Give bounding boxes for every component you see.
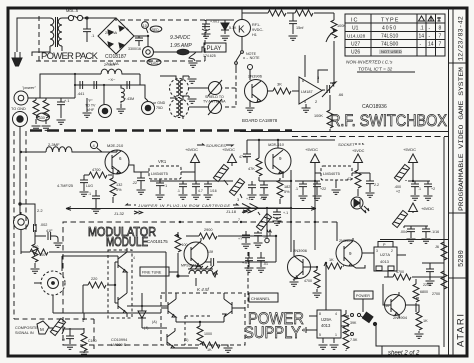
- wire branch: [20, 204, 35, 222]
- svg-text:or GND: or GND: [153, 101, 166, 105]
- svg-text:R.F. SWITCHBOX: R.F. SWITCHBOX: [330, 111, 447, 130]
- box POWER switch label: [354, 291, 373, 312]
- svg-text:.1: .1: [88, 192, 91, 196]
- wire splitter: [115, 262, 127, 303]
- op-amp U3: [234, 197, 292, 213]
- wire power rail: [28, 74, 140, 98]
- resistor R16: [80, 328, 97, 356]
- box CHANNEL: [249, 293, 278, 302]
- svg-text:1K: 1K: [207, 348, 212, 352]
- connector K: [234, 13, 251, 50]
- svg-text:7: 7: [439, 42, 442, 48]
- strip cell divider under system title: [449, 212, 467, 214]
- svg-text:4.7: 4.7: [198, 189, 203, 193]
- svg-text:POWER PACK: POWER PACK: [41, 51, 99, 62]
- svg-text:RED: RED: [152, 28, 160, 32]
- svg-text:PLUG: PLUG: [149, 61, 159, 65]
- power triangle +5VDC right: [409, 154, 418, 166]
- resistor R13 47n: [347, 169, 361, 196]
- console dashed boundary left inner: [25, 131, 27, 232]
- capacitor C20 +1: [246, 181, 257, 201]
- capacitor C7: [77, 81, 84, 96]
- svg-text:3: 3: [376, 249, 378, 253]
- jack J6: [14, 212, 29, 248]
- wire left drop: [19, 127, 21, 214]
- svg-text:1000: 1000: [204, 332, 212, 336]
- schematic right edge wire: [443, 137, 445, 347]
- capacitor C29 .1/16: [422, 226, 440, 243]
- transistor Q2 M2E-210: [105, 143, 129, 174]
- wire jack to play: [154, 47, 204, 52]
- wire to output jack: [134, 36, 148, 46]
- power triangle +5VDC: [228, 154, 237, 166]
- svg-text:SUPPLY: SUPPLY: [244, 324, 301, 342]
- bridge rectifier BR1: [98, 18, 148, 54]
- svg-text:132: 132: [116, 183, 122, 187]
- jumper plug X4: [229, 178, 244, 198]
- svg-text:PLAY: PLAY: [207, 46, 222, 52]
- svg-text:CHANNEL: CHANNEL: [251, 296, 271, 301]
- svg-text:330: 330: [39, 116, 45, 120]
- svg-text:sheet 2 of 2: sheet 2 of 2: [388, 351, 420, 357]
- svg-text:4050: 4050: [382, 26, 397, 32]
- IC table grid: [345, 14, 445, 56]
- fuse F1 MDL-5: [66, 8, 87, 21]
- table header: [351, 16, 441, 24]
- ground Q1 emitter: [246, 108, 255, 112]
- console dashed boundary left outer: [14, 131, 94, 349]
- label CO10994 LM889: [111, 338, 127, 347]
- svg-text:39K: 39K: [350, 321, 357, 325]
- switch S1: [235, 51, 257, 69]
- tag PLUG: [147, 59, 161, 65]
- svg-text:+.1: +.1: [64, 99, 69, 103]
- svg-text:3300/16: 3300/16: [128, 47, 141, 51]
- svg-text:U14,U28: U14,U28: [347, 34, 366, 39]
- channel dashed wire: [247, 252, 249, 310]
- ground U29A pin b: [330, 345, 339, 349]
- box P: [378, 242, 393, 248]
- label RF1-9VDC-H1: [252, 23, 264, 37]
- emitter bus: [259, 170, 291, 252]
- table row U26: [351, 49, 402, 56]
- variable capacitor C5 .66: [322, 41, 343, 97]
- svg-text:2N3904: 2N3904: [393, 315, 408, 320]
- capacitor C12 4.7MF/25: [57, 175, 93, 196]
- svg-text:K: K: [238, 25, 245, 36]
- svg-text:1K: 1K: [329, 258, 334, 262]
- svg-text:FINE TUNE: FINE TUNE: [142, 271, 162, 275]
- svg-text:"power": "power": [22, 85, 36, 90]
- node junction: [19, 203, 21, 205]
- svg-text:J1-32: J1-32: [114, 211, 125, 216]
- pin bubble 10: [142, 22, 149, 33]
- svg-text:1/16: 1/16: [210, 189, 217, 193]
- label SOCKET: [338, 142, 363, 147]
- oscillator transistor Q8: [181, 238, 213, 269]
- ground T3: [188, 96, 197, 103]
- separator heavy dashed line: [30, 129, 292, 132]
- capacitor C21 +15: [260, 181, 269, 201]
- label SOURCES: [197, 143, 233, 148]
- connector M pentagon: [37, 321, 54, 334]
- svg-text:CAO18936: CAO18936: [362, 104, 387, 110]
- svg-text:65K: 65K: [271, 5, 278, 10]
- svg-text:U1: U1: [352, 26, 359, 32]
- capacitor bank C16: [150, 181, 233, 199]
- svg-text:2.2: 2.2: [37, 208, 43, 213]
- svg-text:5%: 5%: [116, 188, 122, 192]
- ground near J4: [83, 98, 92, 117]
- svg-text:.66: .66: [338, 93, 343, 97]
- diode D3: [127, 293, 168, 328]
- svg-text:+.43M: +.43M: [124, 97, 134, 101]
- svg-text:.22: .22: [132, 181, 137, 185]
- capacitor C11 41F: [35, 229, 63, 247]
- capacitor C3 .001: [202, 20, 235, 39]
- svg-text:8: 8: [302, 79, 304, 83]
- svg-text:15nf: 15nf: [296, 26, 304, 30]
- resistor R19: [175, 232, 188, 277]
- plug capsule dark: [177, 49, 189, 55]
- resistor R6 330: [32, 98, 41, 130]
- svg-text:SIGNAL IN: SIGNAL IN: [15, 331, 34, 335]
- svg-text:4: 4: [304, 100, 306, 104]
- svg-text:"F": "F": [88, 99, 93, 103]
- jack J3: [13, 112, 28, 127]
- led D2: [351, 197, 369, 213]
- svg-text:VHF: VHF: [87, 108, 95, 112]
- resistor R15 220: [53, 277, 161, 320]
- svg-text:U26: U26: [351, 50, 360, 56]
- shield transformer T2: [160, 76, 189, 100]
- resistor R28 1K: [415, 312, 429, 338]
- svg-text:2900: 2900: [204, 228, 212, 232]
- svg-text:+5VDC: +5VDC: [352, 149, 365, 153]
- power rail caps right: [390, 180, 435, 182]
- svg-text:+1: +1: [163, 184, 167, 188]
- svg-text:3K: 3K: [277, 82, 282, 87]
- resistor R7 330: [42, 98, 51, 130]
- svg-text:.400: .400: [394, 185, 401, 189]
- svg-text:~X~: ~X~: [108, 77, 116, 82]
- svg-text:2.7MH: 2.7MH: [104, 63, 115, 67]
- svg-text:4013: 4013: [380, 259, 390, 264]
- svg-text:15f: 15f: [208, 250, 213, 254]
- svg-text:.01: .01: [263, 262, 268, 266]
- svg-text:+.1: +.1: [283, 211, 288, 215]
- svg-text:220: 220: [91, 277, 97, 281]
- capacitor C15 +1: [156, 179, 168, 199]
- resistor R17 1000: [197, 326, 212, 345]
- svg-text:41F: 41F: [46, 229, 53, 233]
- transistor Q10: [336, 238, 374, 268]
- trimmer resistor R3 100K: [326, 13, 346, 42]
- table row U1: [352, 26, 442, 32]
- transistor Q5b arrows: [115, 289, 127, 317]
- power bus 6v: [150, 180, 161, 182]
- wire rail right: [408, 166, 430, 181]
- svg-text:2-3MF: 2-3MF: [48, 142, 60, 147]
- svg-text:4: 4: [335, 312, 337, 316]
- svg-text:7: 7: [238, 218, 240, 222]
- capacitor C36: [238, 231, 251, 248]
- capacitor C33: [257, 252, 269, 272]
- label .400 x2: [394, 185, 401, 194]
- strip cell divider under date: [449, 62, 467, 64]
- svg-text:U27A: U27A: [380, 252, 390, 257]
- regulator VR1: [129, 159, 195, 179]
- svg-text:+.1/16: +.1/16: [429, 230, 439, 234]
- jumper plug X5: [256, 212, 271, 232]
- transformer T1: [32, 17, 69, 56]
- svg-text:(A): (A): [152, 320, 157, 324]
- svg-text:MPS3563: MPS3563: [181, 264, 196, 268]
- ic U27A 4013: [374, 247, 406, 274]
- ground Q9: [290, 266, 319, 287]
- svg-text:LM340T5: LM340T5: [323, 171, 341, 176]
- svg-text:47nf: 47nf: [239, 155, 246, 159]
- ground U29A left: [303, 327, 310, 333]
- svg-text:4700: 4700: [92, 168, 100, 172]
- svg-text:LM889 E: LM889 E: [111, 343, 127, 347]
- power triangle socket: [354, 154, 363, 169]
- transistor Q9 2N3906: [288, 240, 318, 281]
- svg-text:×2: ×2: [396, 190, 400, 194]
- svg-text:MODULE: MODULE: [106, 235, 148, 249]
- capacitor C19: [239, 140, 251, 163]
- svg-text:.1: .1: [295, 187, 298, 191]
- svg-text:+1: +1: [246, 197, 250, 201]
- svg-text:200mA: 200mA: [105, 31, 117, 35]
- svg-text:MDL-5: MDL-5: [66, 8, 79, 13]
- svg-text:+6VDC: +6VDC: [421, 206, 434, 211]
- jack J2: [14, 91, 28, 105]
- svg-text:2N3906: 2N3906: [293, 248, 308, 253]
- capacitor C8: [94, 81, 97, 89]
- jack J4 TV VHF: [85, 85, 112, 118]
- resistor R8 100: [31, 244, 46, 273]
- svg-text:100: 100: [182, 243, 188, 247]
- svg-text:+: +: [126, 27, 129, 33]
- capacitor C31 K: [205, 236, 276, 266]
- zener D1 51K: [221, 20, 237, 40]
- capacitor C27 +2: [424, 181, 436, 200]
- note JUMPER IN PLUG-IN ROM CARTRIDGE: [126, 203, 238, 208]
- inductor L2 2-3MF: [46, 142, 117, 152]
- diff pair dashed box: [161, 293, 245, 345]
- svg-text:2: 2: [391, 249, 393, 253]
- svg-text:.002: .002: [40, 223, 47, 227]
- rf rail caps: [74, 73, 105, 86]
- transistor Q3 M28-310: [265, 140, 291, 178]
- resistor R27 2200: [441, 239, 447, 271]
- svg-text:4: 4: [133, 256, 135, 260]
- svg-text:74LS10: 74LS10: [381, 34, 398, 40]
- svg-text:74LS00: 74LS00: [381, 42, 398, 48]
- wire 1K node to U29A: [325, 263, 327, 310]
- tuning plug X2: [189, 99, 222, 115]
- svg-text:2700: 2700: [432, 292, 440, 296]
- transistor Q5a arrows: [115, 248, 135, 272]
- svg-text:1.95 AMP: 1.95 AMP: [170, 43, 192, 49]
- svg-text:.441: .441: [77, 92, 84, 96]
- capacitor C26 .1: [398, 181, 430, 200]
- collector rail wire: [247, 139, 335, 141]
- svg-text:+22: +22: [320, 187, 326, 191]
- dashed partition in diff box: [185, 316, 211, 345]
- ground under output wire: [189, 52, 198, 67]
- svg-text:12/23/83-42: 12/23/83-42: [458, 16, 466, 61]
- svg-text:+5VDC: +5VDC: [222, 147, 235, 152]
- svg-text:+5VDC: +5VDC: [403, 147, 416, 152]
- separator right dashed: [292, 136, 448, 138]
- svg-text:nf: nf: [62, 338, 65, 342]
- ground op-amp pin4: [302, 107, 311, 112]
- svg-text:100K: 100K: [314, 114, 323, 118]
- svg-text:TOTAL IC'T = 32: TOTAL IC'T = 32: [358, 67, 393, 72]
- tuning plug X1: [189, 80, 222, 96]
- svg-text:4700: 4700: [304, 279, 312, 283]
- capacitor C13 .1: [88, 190, 101, 213]
- svg-text:7: 7: [439, 34, 442, 40]
- svg-text:PROGRAMMABLE VIDEO GAME SYSTEM: PROGRAMMABLE VIDEO GAME SYSTEM: [458, 67, 466, 211]
- svg-text:5%: 5%: [284, 190, 290, 194]
- svg-text:47n: 47n: [347, 177, 353, 181]
- capacitor C35 +.1: [273, 208, 289, 225]
- table row U14 U28: [347, 34, 442, 40]
- svg-text:.1: .1: [418, 187, 421, 191]
- transistor Q7: [142, 320, 198, 348]
- svg-text:K 4.5f: K 4.5f: [197, 287, 210, 292]
- sheet box: [382, 346, 439, 357]
- svg-text:5.1K: 5.1K: [229, 26, 237, 30]
- svg-text:.004: .004: [400, 230, 407, 234]
- capacitor C30 nf: [62, 328, 75, 349]
- wire left column: [20, 248, 22, 254]
- capacitor C22 .1: [295, 181, 320, 200]
- svg-text:6800: 6800: [420, 290, 428, 294]
- svg-text:TYPE: TYPE: [381, 18, 399, 24]
- svg-text:o→ NOTE: o→ NOTE: [243, 56, 260, 60]
- resistor R23 39K: [341, 310, 357, 332]
- svg-text:10: 10: [143, 24, 147, 28]
- capacitor C10 .002: [34, 222, 48, 244]
- svg-text:IC: IC: [351, 18, 359, 24]
- transistor Q11 2N3904: [383, 284, 408, 320]
- svg-text:COMPOSITE: COMPOSITE: [15, 326, 38, 330]
- jack J5 75ohm: [135, 85, 166, 115]
- svg-text:CA018175: CA018175: [147, 239, 168, 244]
- capacitor C9 .41M: [127, 81, 130, 89]
- svg-text:POWER: POWER: [356, 294, 370, 298]
- wire bus osc: [63, 222, 337, 302]
- svg-text:U29A: U29A: [321, 317, 332, 322]
- svg-text:NON-INVERTED I.C.'s: NON-INVERTED I.C.'s: [346, 60, 393, 65]
- svg-text:5: 5: [319, 333, 321, 337]
- wire: [314, 12, 334, 14]
- terminal circle J pin: [265, 208, 272, 243]
- power triangle +5VDC mid: [311, 154, 320, 250]
- resistor R25 4700: [384, 270, 444, 280]
- capacitor C32: [242, 252, 254, 272]
- svg-text:H1: H1: [252, 33, 257, 37]
- capacitor C23 +22: [313, 181, 327, 200]
- svg-text:(1): (1): [184, 338, 188, 342]
- power triangle +6VDC: [191, 154, 200, 181]
- svg-text:8: 8: [439, 26, 442, 32]
- table row U27: [351, 42, 442, 48]
- switch box PLAY: [204, 43, 226, 52]
- inductor L1 X: [101, 63, 140, 85]
- svg-text:U27: U27: [351, 42, 360, 48]
- capacitor C2 3300/16: [128, 36, 143, 51]
- pin bubble 4: [90, 141, 102, 152]
- annotation line jumper note: [66, 207, 316, 211]
- resistor R10 132: [110, 168, 122, 203]
- transistor Q1 2N3906: [243, 56, 268, 107]
- ic dashed box CO10994: [108, 250, 132, 318]
- wire: [287, 12, 295, 14]
- svg-text:BOARD CA18978: BOARD CA18978: [242, 118, 278, 123]
- resistor R14 100: [21, 245, 63, 255]
- box FINE TUNE: [140, 267, 178, 276]
- switch S2: [357, 312, 384, 346]
- resistor R22 4700: [304, 267, 322, 297]
- ic U29A 4013: [309, 310, 349, 343]
- wire Q11 to 1K: [405, 298, 419, 312]
- title strip divider line: [449, 8, 454, 356]
- svg-text:.1: .1: [420, 26, 424, 32]
- svg-text:TV ANTENNA: TV ANTENNA: [203, 100, 226, 104]
- svg-text:TO GND: TO GND: [11, 107, 26, 111]
- transistor Q6 diff right: [222, 293, 245, 322]
- svg-text:J6: J6: [435, 245, 439, 249]
- svg-text:CO10994: CO10994: [111, 338, 127, 342]
- svg-text:J1-18: J1-18: [226, 209, 237, 214]
- separator right solid: [240, 131, 448, 133]
- svg-text:9.34VDC: 9.34VDC: [170, 35, 191, 41]
- svg-text:M28-310: M28-310: [268, 142, 285, 147]
- AC plug P1: [12, 18, 50, 66]
- svg-text:14: 14: [419, 34, 425, 40]
- svg-text:M2E-210: M2E-210: [107, 143, 124, 148]
- capacitor C17: [192, 181, 203, 199]
- svg-text:C100: C100: [88, 339, 97, 343]
- svg-text:JUMPER IN PLUG-IN ROM CARTRIDG: JUMPER IN PLUG-IN ROM CARTRIDGE: [137, 203, 230, 208]
- label 9.34VDC 1.95 AMP: [170, 35, 192, 49]
- svg-text:2N3906: 2N3906: [248, 74, 263, 79]
- svg-text:47K: 47K: [248, 167, 255, 171]
- svg-text:9VDC-: 9VDC-: [252, 28, 264, 32]
- wire Q2 top: [116, 150, 118, 152]
- op-amp U2 LM187: [299, 55, 328, 107]
- resistor R1 65K: [268, 5, 286, 16]
- svg-text:SOCKET: SOCKET: [338, 142, 355, 147]
- modulator module dashed box: [63, 222, 337, 345]
- svg-text:+.001: +.001: [210, 20, 219, 24]
- svg-text:1: 1: [335, 333, 337, 337]
- ground T2: [188, 76, 197, 83]
- tag RED: [150, 26, 162, 32]
- resistor R11 47K: [248, 140, 262, 181]
- svg-text:ATARI: ATARI: [456, 314, 467, 347]
- jumper plug X3: [213, 164, 228, 185]
- svg-text:LM187: LM187: [301, 90, 313, 94]
- oscillator coil L3: [178, 266, 218, 286]
- svg-text:4.7MF/25: 4.7MF/25: [57, 184, 73, 188]
- svg-text:7.5K: 7.5K: [350, 338, 358, 342]
